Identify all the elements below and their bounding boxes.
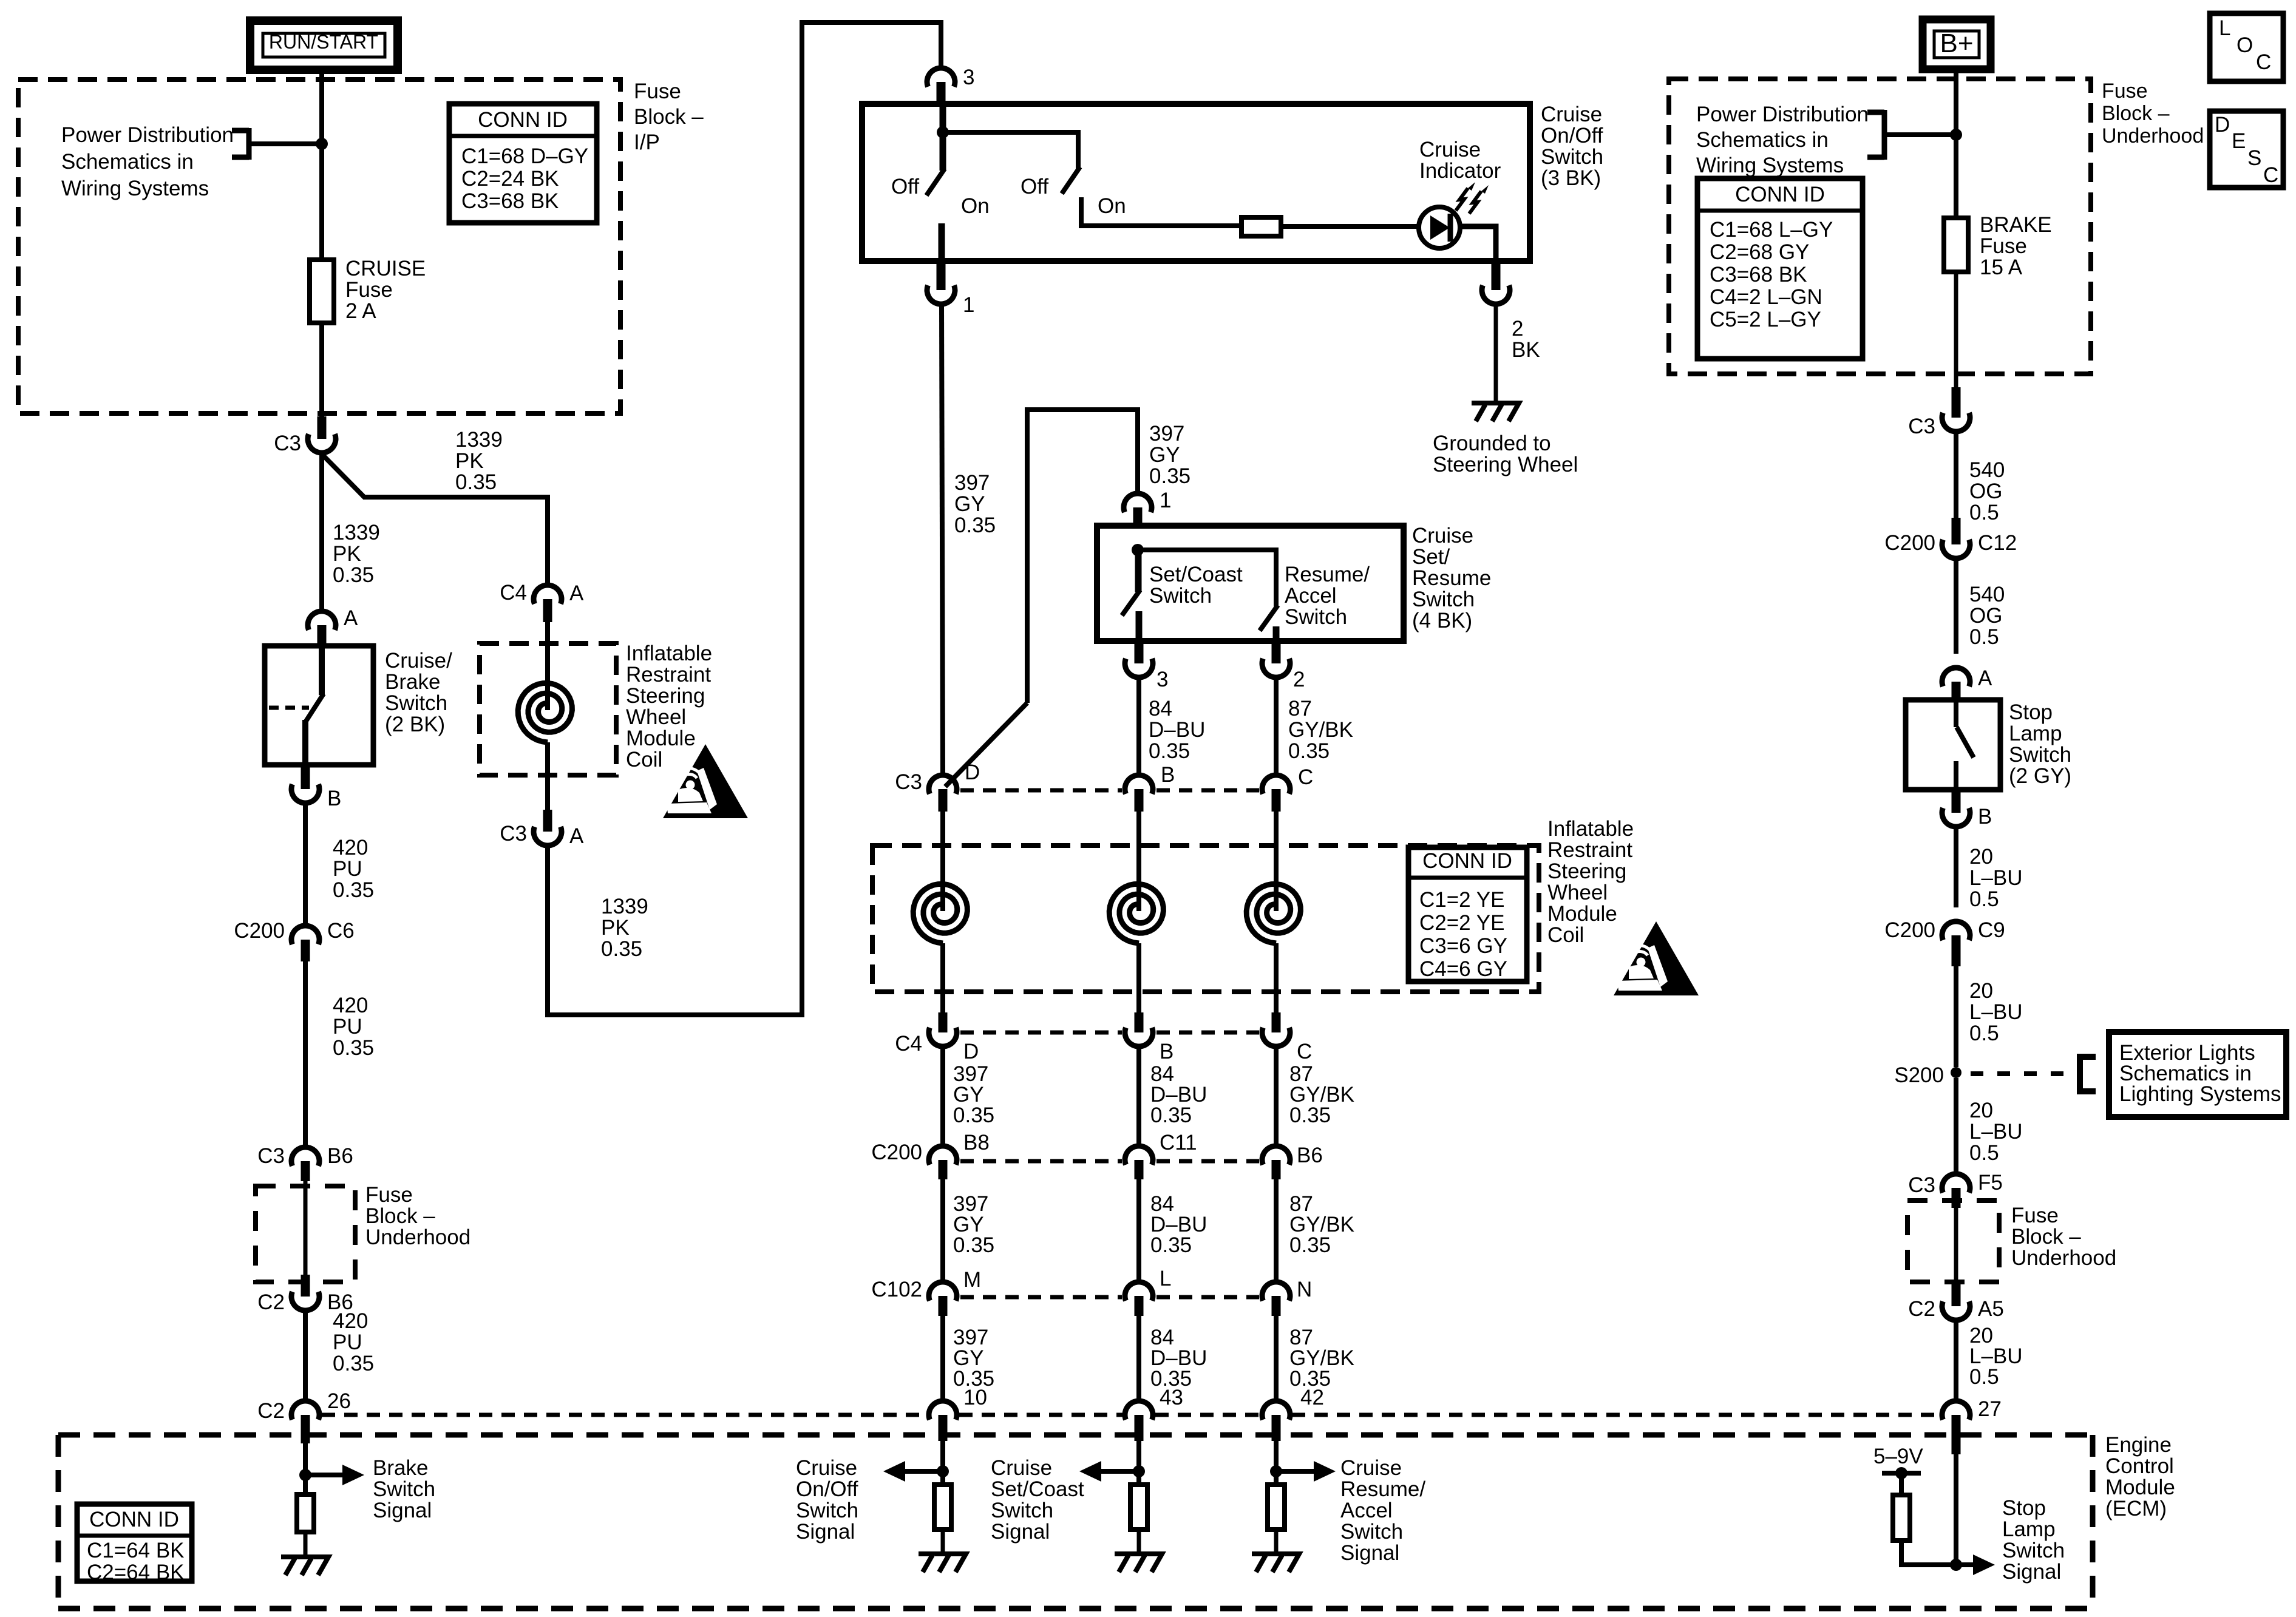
CONN ID ECM rows <box>87 1539 185 1584</box>
svg-text:D: D <box>2215 113 2230 137</box>
5-9V source bar <box>1882 1467 1921 1495</box>
svg-text:420: 420 <box>333 1309 368 1333</box>
wire C2 to ECM <box>303 1310 308 1401</box>
connector C2 26 ECM <box>291 1401 319 1443</box>
connector C4 C <box>1262 1012 1290 1046</box>
svg-text:Restraint: Restraint <box>1547 838 1632 862</box>
ground ECM sig 1 <box>1115 1554 1162 1572</box>
svg-text:O: O <box>2237 33 2253 57</box>
svg-text:C2=64 BK: C2=64 BK <box>87 1561 185 1584</box>
svg-text:(4 BK): (4 BK) <box>1412 609 1472 632</box>
svg-text:Power Distribution: Power Distribution <box>1696 103 1869 126</box>
svg-text:C3=6 GY: C3=6 GY <box>1419 934 1507 958</box>
svg-text:Lamp: Lamp <box>2009 722 2062 745</box>
wire into coil 1876 <box>1136 812 1141 911</box>
clockspring coil L <box>518 683 572 742</box>
connector C2 A5 pin label <box>1978 1297 2004 1321</box>
svg-text:(2 GY): (2 GY) <box>2009 764 2071 788</box>
svg-text:C2=68 GY: C2=68 GY <box>1710 240 1809 264</box>
connector C200 C9 <box>1942 921 1970 966</box>
svg-text:Switch: Switch <box>1285 605 1347 629</box>
wire 20 LBU label C <box>1969 1099 2023 1165</box>
svg-text:87: 87 <box>1288 697 1312 720</box>
S200 dashed line <box>1971 1071 2073 1076</box>
svg-text:On: On <box>961 194 990 218</box>
label M <box>963 1268 981 1292</box>
svg-text:PU: PU <box>333 1015 362 1039</box>
label On 2 <box>1098 194 1126 218</box>
wire 397 GY seg4 <box>940 1316 945 1401</box>
wire 397 GY label A <box>954 471 996 537</box>
svg-text:Signal: Signal <box>796 1520 855 1544</box>
svg-text:15 A: 15 A <box>1980 256 2023 279</box>
svg-text:D: D <box>965 761 980 784</box>
svg-text:0.35: 0.35 <box>954 514 996 537</box>
CONN ID underhood title <box>1735 183 1825 206</box>
wire 84 DBU seg2 <box>1136 1046 1141 1146</box>
svg-text:C: C <box>1297 1040 1312 1063</box>
CONN ID coil title <box>1422 849 1512 873</box>
wire into coil 2102 <box>1274 812 1279 911</box>
connector C3 B6 label <box>257 1144 285 1168</box>
svg-text:Grounded to: Grounded to <box>1433 432 1551 455</box>
resistor cruise indicator <box>1241 217 1281 236</box>
wire loop diagonal <box>945 703 1027 787</box>
connector C200 C12 pin label <box>1978 531 2017 555</box>
signal label 1 <box>991 1456 1084 1544</box>
label D C4row <box>963 1040 979 1063</box>
svg-text:Signal: Signal <box>991 1520 1050 1544</box>
svg-text:D: D <box>963 1040 979 1063</box>
wire 397 GY label C <box>953 1062 994 1127</box>
connector pin 1 onoff pin label <box>963 293 974 317</box>
connector C3 C pin label <box>1298 765 1313 789</box>
svg-text:Steering Wheel: Steering Wheel <box>1433 453 1578 476</box>
svg-text:PK: PK <box>601 916 630 940</box>
svg-text:540: 540 <box>1969 583 2005 606</box>
fuse block I/P label <box>634 80 704 154</box>
svg-text:Switch: Switch <box>1541 145 1603 169</box>
svg-text:OG: OG <box>1969 604 2002 628</box>
label L <box>1160 1267 1171 1290</box>
switch Set/Coast blade <box>1122 550 1140 641</box>
svg-text:CONN ID: CONN ID <box>1735 183 1825 206</box>
DESC box <box>2210 111 2283 188</box>
svg-text:B8: B8 <box>963 1131 990 1154</box>
connector C2 26 ECM label <box>257 1399 285 1423</box>
connector C3 underhood label <box>1908 415 1935 438</box>
svg-text:C12: C12 <box>1978 531 2017 555</box>
wire S200 down <box>1954 1078 1958 1174</box>
connector C3 B6 pin label <box>327 1144 353 1168</box>
svg-text:Steering: Steering <box>626 684 705 708</box>
connector ECM 10 <box>929 1401 957 1441</box>
switch Stop Lamp box <box>1906 700 2000 790</box>
switch Cruise/Brake blade <box>269 646 324 765</box>
ground ECM brake <box>281 1557 328 1575</box>
warning triangle L <box>663 744 748 818</box>
wire B+ down <box>1954 69 1958 218</box>
row line C200 b <box>1156 1159 1259 1164</box>
svg-text:Indicator: Indicator <box>1419 159 1501 183</box>
signal label 0 <box>796 1456 858 1544</box>
wire into coil 1553 <box>940 812 945 911</box>
connector C200 C11 <box>1125 1146 1153 1179</box>
svg-text:PU: PU <box>333 857 362 881</box>
connector C200 C9 label <box>1884 918 1935 942</box>
connector C3 F5 pin label <box>1978 1171 2003 1195</box>
svg-text:0.35: 0.35 <box>333 563 374 587</box>
svg-text:CRUISE: CRUISE <box>345 257 426 280</box>
svg-text:Inflatable: Inflatable <box>1547 817 1634 841</box>
svg-text:Fuse: Fuse <box>345 278 393 302</box>
svg-text:Block –: Block – <box>365 1204 435 1228</box>
svg-text:C2=2 YE: C2=2 YE <box>1419 911 1504 935</box>
wire fuse to C3 R <box>1954 272 1958 388</box>
svg-text:On: On <box>1098 194 1126 218</box>
connector ECM 27 <box>1942 1401 1970 1454</box>
wire 87 GYBK label D <box>1289 1326 1354 1391</box>
svg-text:C200: C200 <box>234 919 285 943</box>
svg-text:Module: Module <box>1547 902 1617 926</box>
CONN ID table coil <box>1408 847 1527 981</box>
wire 20 LBU label B <box>1969 979 2023 1045</box>
row line C4 b <box>1156 1031 1259 1035</box>
wire 540 OG label B <box>1969 583 2005 649</box>
svg-text:Cruise: Cruise <box>1412 524 1473 547</box>
connector C3 B <box>1125 775 1153 812</box>
connector C3 B pin label <box>1161 763 1175 787</box>
label N <box>1297 1278 1312 1301</box>
wire 87 GYBK label C <box>1289 1192 1354 1257</box>
connector C200 B6m <box>1262 1146 1290 1179</box>
wire ECM sig 2 <box>1274 1441 1279 1485</box>
wire C200 down R <box>1954 558 1958 654</box>
svg-text:L: L <box>2219 16 2230 40</box>
wire B to C200 <box>303 802 308 926</box>
power node B+ box <box>1923 19 1991 69</box>
connector C4 coil L <box>534 585 562 622</box>
wire 397 GY seg3 <box>940 1179 945 1282</box>
wire ECM brake <box>303 1443 308 1494</box>
svg-text:B: B <box>1978 805 1992 829</box>
svg-text:Switch: Switch <box>796 1499 858 1522</box>
svg-text:Set/Coast: Set/Coast <box>991 1477 1084 1501</box>
wire ECM sig 0 <box>940 1441 945 1485</box>
connector ECM 27 pin label <box>1978 1397 2002 1421</box>
signal label 2 <box>1340 1456 1425 1565</box>
junction dot sig 0 <box>937 1465 949 1477</box>
svg-text:C: C <box>1298 765 1313 789</box>
wire out coil 2102 <box>1274 943 1279 1014</box>
fuse block I/P box <box>18 80 620 413</box>
svg-text:A: A <box>1978 666 1992 690</box>
wire ECM sig 1 <box>1136 1441 1141 1485</box>
svg-text:GY: GY <box>1149 443 1180 467</box>
connector C4 coil L label <box>500 581 527 605</box>
svg-text:Module: Module <box>626 727 696 750</box>
wire B to C200 R2 <box>1954 826 1958 907</box>
svg-text:RUN/START: RUN/START <box>269 31 378 53</box>
wire sig gnd 2 <box>1274 1530 1279 1554</box>
svg-text:M: M <box>963 1268 981 1292</box>
wire 84 DBU seg3 <box>1136 1179 1141 1282</box>
svg-text:Lamp: Lamp <box>2002 1517 2056 1541</box>
wire resistor to LED <box>1281 224 1419 229</box>
connector C102 L <box>1125 1282 1153 1316</box>
svg-text:F5: F5 <box>1978 1171 2003 1195</box>
connector C102 M label <box>871 1278 922 1301</box>
wire C200 to C3 <box>303 961 308 1147</box>
svg-text:Block –: Block – <box>2011 1225 2081 1249</box>
svg-text:Signal: Signal <box>1340 1541 1399 1565</box>
label On 1 <box>961 194 990 218</box>
LOC box <box>2210 13 2283 81</box>
inflatable coil label L <box>626 642 712 771</box>
svg-text:C5=2 L–GY: C5=2 L–GY <box>1710 308 1821 331</box>
switch Cruise/Brake label <box>385 649 452 736</box>
svg-text:Stop: Stop <box>2009 700 2053 724</box>
svg-text:Block –: Block – <box>2102 102 2170 125</box>
arrow signal 2 <box>1276 1461 1336 1482</box>
svg-text:20: 20 <box>1969 1099 1993 1122</box>
fuse BRAKE label <box>1980 213 2052 279</box>
CONN ID I/P title <box>478 108 568 132</box>
CONN ID table I/P <box>449 104 597 223</box>
svg-text:0.35: 0.35 <box>333 1036 374 1060</box>
svg-text:S200: S200 <box>1894 1063 1944 1087</box>
svg-text:Set/Coast: Set/Coast <box>1149 563 1243 586</box>
label B C4row <box>1160 1040 1173 1063</box>
svg-text:OG: OG <box>1969 480 2002 503</box>
connector C3 coil L label <box>500 822 527 846</box>
cruise indicator label <box>1419 138 1501 183</box>
5-9V label <box>1873 1445 1923 1468</box>
svg-text:C1=64 BK: C1=64 BK <box>87 1539 185 1562</box>
switch Stop Lamp blade <box>1956 700 1974 790</box>
label B8 <box>963 1131 990 1154</box>
svg-text:L–BU: L–BU <box>1969 866 2023 890</box>
wire 1339 PK to loop <box>548 22 941 1015</box>
S200 label <box>1894 1063 1944 1087</box>
RUN/START label <box>269 31 378 53</box>
wire 540 OG label A <box>1969 458 2005 524</box>
svg-text:BRAKE: BRAKE <box>1980 213 2052 237</box>
svg-text:1: 1 <box>1160 489 1171 512</box>
wire 84 DBU seg4 <box>1136 1316 1141 1401</box>
label B6m <box>1297 1144 1323 1167</box>
connector C2 B6 pin label <box>327 1290 353 1314</box>
clockspring coil 1876 <box>1109 884 1163 943</box>
svg-text:Switch: Switch <box>991 1499 1053 1522</box>
wire 87 GYBK label B <box>1289 1062 1354 1127</box>
switch OnOff label <box>1541 103 1603 190</box>
ground ECM sig 0 <box>919 1554 966 1572</box>
svg-text:Cruise: Cruise <box>991 1456 1052 1480</box>
fuse BRAKE 15A <box>1944 218 1968 272</box>
svg-text:Accel: Accel <box>1340 1499 1393 1522</box>
wire 87 GYBK seg3 <box>1274 1179 1279 1282</box>
switch Stop Lamp label <box>2009 700 2071 788</box>
connector C2 A5 label <box>1908 1297 1935 1321</box>
connector C2 A5 <box>1942 1281 1970 1320</box>
svg-text:Resume/: Resume/ <box>1340 1477 1425 1501</box>
fuse block underhood small R <box>1907 1201 1999 1282</box>
svg-text:C200: C200 <box>871 1141 922 1164</box>
wire 1339 PK label C <box>601 895 648 961</box>
callout bracket R <box>1867 110 1954 160</box>
svg-text:Signal: Signal <box>2002 1560 2061 1584</box>
row line C200 <box>960 1159 1122 1164</box>
callout bracket L <box>232 128 319 160</box>
svg-text:Coil: Coil <box>1547 923 1584 947</box>
LOC letters C <box>2256 50 2271 74</box>
wire 397 GY label E <box>953 1326 994 1391</box>
grounded label <box>1433 432 1578 476</box>
svg-text:On/Off: On/Off <box>796 1477 858 1501</box>
svg-text:L: L <box>1160 1267 1171 1290</box>
svg-text:Fuse: Fuse <box>1980 234 2027 258</box>
DESC letters S <box>2247 146 2261 170</box>
svg-text:CONN ID: CONN ID <box>89 1508 179 1531</box>
svg-text:CONN ID: CONN ID <box>1422 849 1512 873</box>
LOC letters L <box>2219 16 2230 40</box>
fuse CRUISE 2A <box>310 260 334 323</box>
svg-text:C1=68 D–GY: C1=68 D–GY <box>461 144 588 168</box>
svg-text:0.35: 0.35 <box>1288 739 1330 763</box>
connector C2 B6 label <box>257 1290 285 1314</box>
svg-text:Resume/: Resume/ <box>1285 563 1370 586</box>
svg-text:0.35: 0.35 <box>1150 1233 1192 1257</box>
connector C3 D <box>929 775 957 812</box>
wire 397 GY label D <box>953 1192 994 1257</box>
svg-text:0.35: 0.35 <box>1289 1233 1331 1257</box>
svg-text:Fuse: Fuse <box>365 1183 413 1207</box>
svg-text:B: B <box>1161 763 1175 787</box>
connector A cruise brake switch pin label <box>344 606 358 630</box>
svg-text:3: 3 <box>1156 668 1168 691</box>
wire C3 to C200 R <box>1954 432 1958 519</box>
connector C200 C12 <box>1942 518 1970 558</box>
svg-text:C1=68 L–GY: C1=68 L–GY <box>1710 218 1833 242</box>
svg-text:A: A <box>344 606 358 630</box>
svg-text:2 A: 2 A <box>345 299 376 323</box>
svg-text:Switch: Switch <box>1412 588 1475 611</box>
svg-text:Underhood: Underhood <box>365 1225 470 1249</box>
svg-text:C4=2 L–GN: C4=2 L–GN <box>1710 285 1822 309</box>
svg-text:(ECM): (ECM) <box>2105 1497 2167 1520</box>
ECM label <box>2105 1433 2175 1520</box>
svg-text:E: E <box>2232 129 2246 153</box>
svg-text:Fuse: Fuse <box>2102 80 2148 103</box>
wire resistor to ground L <box>304 1532 308 1557</box>
svg-text:Wiring Systems: Wiring Systems <box>1696 154 1844 177</box>
svg-text:0.35: 0.35 <box>953 1233 994 1257</box>
power distribution note L <box>61 123 234 200</box>
svg-text:Cruise/: Cruise/ <box>385 649 452 673</box>
svg-text:L–BU: L–BU <box>1969 1120 2023 1144</box>
svg-text:0.5: 0.5 <box>1969 887 1999 911</box>
svg-text:Brake: Brake <box>385 670 440 694</box>
svg-text:(3 BK): (3 BK) <box>1541 166 1601 190</box>
row line C3 <box>960 788 1122 793</box>
connector C4 D label <box>895 1032 922 1056</box>
svg-text:B+: B+ <box>1940 29 1973 58</box>
svg-text:PK: PK <box>455 449 484 473</box>
connector C102 N <box>1262 1282 1290 1316</box>
connector pin 3 onoff switch pin label <box>963 66 974 89</box>
svg-text:B: B <box>1160 1040 1173 1063</box>
svg-text:(2 BK): (2 BK) <box>385 713 445 736</box>
connector C3 F5 <box>1942 1174 1970 1208</box>
connector B cruise brake switch <box>291 766 319 803</box>
ECM row line b <box>959 1413 1123 1417</box>
clockspring coil 1553 <box>913 884 967 943</box>
wire 84 DBU label C <box>1150 1192 1207 1257</box>
svg-text:C1=2 YE: C1=2 YE <box>1419 888 1504 912</box>
label C C4row <box>1297 1040 1312 1063</box>
connector C4 B <box>1125 1012 1153 1046</box>
svg-text:Brake: Brake <box>373 1456 428 1480</box>
svg-text:Switch: Switch <box>385 691 447 715</box>
svg-text:Restraint: Restraint <box>626 663 711 686</box>
switch Cruise/Brake box <box>265 646 373 765</box>
svg-text:A5: A5 <box>1978 1297 2004 1321</box>
junction dot L power <box>316 138 328 150</box>
connector A cruise brake switch <box>308 611 336 646</box>
svg-text:Engine: Engine <box>2105 1433 2172 1457</box>
svg-text:0.35: 0.35 <box>1149 464 1190 488</box>
power node RUN/START box <box>250 21 398 70</box>
svg-text:C9: C9 <box>1978 918 2005 942</box>
CONN ID underhood rows <box>1710 218 1833 331</box>
arrow brake switch signal <box>305 1465 364 1485</box>
clockspring coil 2102 <box>1246 884 1300 943</box>
svg-text:Switch: Switch <box>2002 1539 2065 1562</box>
svg-text:Coil: Coil <box>626 748 662 771</box>
svg-text:2: 2 <box>1512 317 1523 341</box>
resistor ECM sig 0 <box>934 1485 951 1530</box>
wire 1339 PK label A <box>333 521 380 587</box>
wire 87 GYBK label A <box>1288 697 1353 763</box>
wire 84 DBU label B <box>1150 1062 1207 1127</box>
connector C200 C9 pin label <box>1978 918 2005 942</box>
wire 1339 PK label B <box>455 428 503 494</box>
label SetCoast switch <box>1149 563 1243 608</box>
svg-text:C200: C200 <box>1884 531 1935 555</box>
DESC letters C2 <box>2263 163 2278 187</box>
svg-text:43: 43 <box>1160 1386 1183 1409</box>
wire 20 LBU label D <box>1969 1324 2023 1389</box>
CONN ID ECM title <box>89 1508 179 1531</box>
resistor ECM sig 1 <box>1130 1485 1147 1530</box>
junction dot setresume <box>1132 544 1144 556</box>
svg-text:Stop: Stop <box>2002 1496 2046 1520</box>
wire C200 C9 down <box>1954 966 1958 1067</box>
ECM row line c <box>1155 1413 1260 1417</box>
warning triangle M <box>1614 921 1699 995</box>
arrow signal 0 <box>883 1461 943 1482</box>
connector C200 C6 <box>291 926 319 961</box>
switch On/Off contact 1 <box>926 104 945 261</box>
svg-text:Off: Off <box>1021 175 1048 198</box>
svg-text:C2: C2 <box>257 1290 285 1314</box>
switch On/Off contact 2 <box>943 132 1241 226</box>
connector C3 underhood <box>1942 387 1970 432</box>
inflatable coil box M <box>872 846 1539 992</box>
svg-text:1339: 1339 <box>601 895 648 918</box>
svg-text:0.35: 0.35 <box>1149 739 1190 763</box>
